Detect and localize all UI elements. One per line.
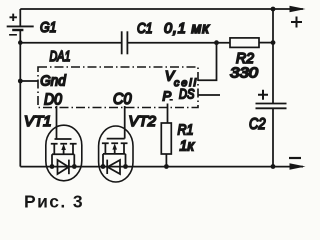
svg-text:0,1 мк: 0,1 мк [164,21,210,37]
IC DA1 box [38,67,198,108]
svg-text:С2: С2 [249,116,266,133]
pin P wire to R1 [167,104,169,124]
svg-text:G1: G1 [40,19,57,36]
capacitor C2 [256,90,287,109]
transistor VT1 [46,125,82,181]
resistor R2 [230,38,259,48]
pin C0 wire to VT2 gate [124,106,126,139]
svg-text:1к: 1к [180,138,195,155]
svg-text:Gnd: Gnd [40,73,66,90]
wire output minus arrowhead [290,163,306,170]
capacitor C1 [122,31,128,54]
label G1 [40,19,57,36]
label VT2 [129,113,157,130]
svg-text:VT1: VT1 [24,113,52,130]
resistor R1 [161,123,171,154]
pin D0 wire to VT1 gate [56,106,58,139]
svg-text:R1: R1 [178,122,194,139]
node C1-R2-Vcell junction [214,40,219,45]
label C0 [113,91,132,108]
wire battery to C1 [20,42,121,44]
label + output [291,17,302,28]
svg-text:DA1: DA1 [50,49,71,65]
label C2 [249,116,266,133]
svg-text:Рис. 3: Рис. 3 [24,191,84,211]
wire left rail [19,43,21,167]
node VT2 source [123,164,128,169]
node R2 right junction [271,40,276,45]
svg-text:C1: C1 [137,21,153,37]
diode VT2 body [107,160,120,174]
label VT1 [24,113,52,130]
transistor VT2 [99,126,133,182]
svg-text:P: P [163,89,172,104]
wire C1 to R2 [128,42,230,44]
pin Gnd wire [20,80,38,82]
label C1 [137,21,153,37]
label 0,1mk [164,21,210,37]
label D0 [44,92,62,109]
node gnd junction [18,79,23,84]
node VT1 source [72,164,77,169]
diode VT1 body [58,160,69,175]
label minus output [289,157,301,159]
caption Ris. 3 [24,191,84,211]
svg-text:D0: D0 [44,92,62,109]
wire right rail upper [272,9,274,103]
label Gnd [40,73,66,90]
pin DS stub wire [198,94,220,96]
node VT1 drain [50,164,55,169]
node VT2 drain [101,164,106,169]
wire R1 to bottom rail [165,154,167,167]
node top-right junction [271,7,276,12]
node battery junction [18,40,23,45]
label 1k [180,138,195,155]
svg-text:330: 330 [230,65,259,82]
wire R2 to right rail [259,42,273,44]
wire output plus arrowhead [290,6,306,13]
label R2 [236,50,255,67]
label Vcell [165,69,197,90]
node R1 bottom junction [164,164,169,169]
label P pin [163,89,173,104]
label 330 [230,65,259,82]
wire right rail lower [272,109,274,167]
node C2 bottom junction [271,164,276,169]
label DA1 [50,49,71,65]
wire bottom rail [20,166,303,168]
pin Vcell wire [198,43,217,81]
label R1 [178,122,194,139]
svg-text:DS: DS [179,86,195,102]
svg-text:VT2: VT2 [129,113,157,130]
battery G1 [7,9,34,43]
svg-text:C0: C0 [113,91,132,108]
wire top rail [20,8,303,10]
label DS [179,86,195,102]
